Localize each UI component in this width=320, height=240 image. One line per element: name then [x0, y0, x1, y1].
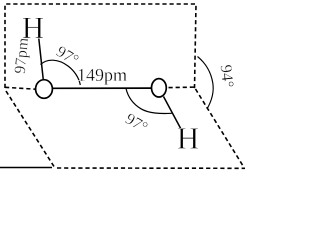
- O-H bond top-left: [39, 39, 43, 80]
- bottom plane bottom edge (dashed): [57, 167, 245, 169]
- bond length label 97pm (rotated): [14, 38, 31, 74]
- hydrogen atom label top-left: [23, 18, 44, 38]
- solid baseline segment bottom-left: [0, 167, 52, 169]
- angle label 97 deg lower-right (rotated): [125, 113, 149, 133]
- oxygen atom right (circle): [152, 79, 167, 97]
- angle arc 97 deg upper-left: [41, 60, 81, 85]
- bond length label 149pm: [79, 69, 127, 85]
- hinge line right dashed segment: [169, 86, 197, 89]
- hinge line left dashed segment: [5, 87, 36, 89]
- dihedral angle label 94 deg (rotated): [220, 65, 233, 88]
- top plane (dashed rectangle): [5, 4, 196, 89]
- O-O bond (149pm): [53, 87, 152, 89]
- angle arc 97 deg lower-right: [126, 89, 172, 114]
- bottom plane right edge (dashed diagonal): [196, 89, 245, 168]
- O-H bond bottom-right: [164, 97, 182, 131]
- oxygen atom left (circle): [36, 80, 53, 99]
- angle label 97 deg upper-left (rotated): [56, 45, 80, 65]
- hydrogen atom label bottom-right: [178, 128, 199, 148]
- dihedral angle arc 94 deg: [198, 57, 214, 110]
- bottom plane left edge (dashed diagonal): [6, 91, 54, 167]
